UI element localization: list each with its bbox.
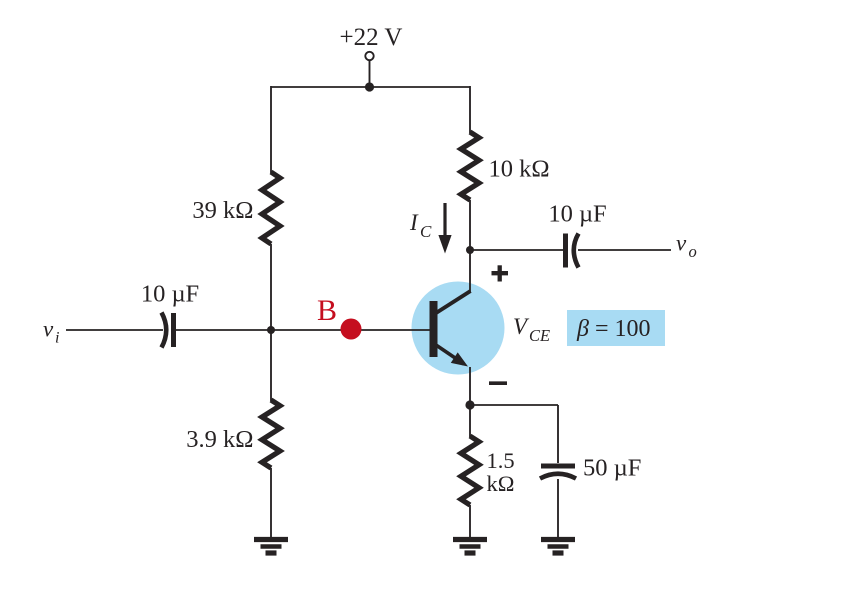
ground GND3 bbox=[541, 540, 575, 554]
label V_CE bbox=[513, 314, 550, 345]
transistor Q1 highlight circle bbox=[412, 282, 505, 375]
wire output right bbox=[578, 249, 671, 251]
supply terminal circle bbox=[365, 52, 373, 60]
svg-text:10 µF: 10 µF bbox=[141, 281, 199, 308]
svg-text:50 µF: 50 µF bbox=[583, 455, 641, 482]
wire emitter node to RE bbox=[469, 405, 471, 437]
svg-text:1.5: 1.5 bbox=[487, 448, 515, 473]
wire R2 to ground bbox=[270, 468, 272, 538]
wire supply stub bbox=[369, 61, 371, 88]
junction collector node bbox=[466, 246, 474, 254]
svg-text:I: I bbox=[409, 210, 419, 235]
wire base node to R2 bbox=[270, 330, 272, 401]
resistor RE 1.5 kΩ bbox=[461, 436, 479, 505]
svg-text:B: B bbox=[317, 294, 337, 327]
capacitor C2 10 µF bbox=[566, 234, 579, 268]
svg-text:V: V bbox=[513, 314, 530, 339]
svg-text:10 kΩ: 10 kΩ bbox=[489, 156, 550, 183]
svg-text:β = 100: β = 100 bbox=[576, 316, 651, 342]
svg-text:v: v bbox=[676, 231, 687, 256]
current arrow I_C bbox=[438, 203, 451, 254]
ground GND1 bbox=[254, 540, 288, 554]
svg-text:10 µF: 10 µF bbox=[548, 201, 606, 228]
svg-text:C: C bbox=[420, 222, 432, 241]
resistor R1 39 kΩ bbox=[262, 172, 280, 244]
wire input bbox=[66, 329, 163, 331]
label v_o bbox=[676, 231, 697, 262]
svg-text:39 kΩ: 39 kΩ bbox=[192, 197, 253, 224]
label + polarity bbox=[492, 265, 509, 281]
label I_C bbox=[409, 210, 432, 241]
svg-text:CE: CE bbox=[529, 326, 550, 345]
node B dot bbox=[341, 319, 362, 340]
svg-text:o: o bbox=[689, 242, 697, 261]
wire top rail bbox=[271, 86, 470, 88]
svg-text:+22 V: +22 V bbox=[340, 24, 403, 51]
svg-text:kΩ: kΩ bbox=[487, 471, 515, 496]
junction emitter node bbox=[465, 400, 474, 409]
wire RC to collector node bbox=[469, 200, 471, 250]
wire collector node to transistor bbox=[469, 250, 471, 292]
capacitor C1 10 µF bbox=[162, 313, 174, 348]
junction divider-base node bbox=[267, 326, 275, 334]
transistor Q1 bbox=[430, 291, 471, 367]
beta box highlight bbox=[567, 310, 665, 346]
ground GND2 bbox=[453, 540, 487, 554]
svg-text:3.9 kΩ: 3.9 kΩ bbox=[186, 426, 253, 453]
resistor R2 3.9 kΩ bbox=[262, 400, 280, 468]
svg-text:i: i bbox=[55, 330, 59, 347]
junction supply node bbox=[365, 82, 374, 91]
label v_i bbox=[43, 317, 59, 347]
label − polarity bbox=[489, 381, 507, 385]
wire emitter to node bbox=[469, 367, 471, 405]
wire output left bbox=[470, 249, 563, 251]
wire left rail upper bbox=[270, 86, 272, 173]
wire emitter node to CE branch bbox=[470, 405, 558, 463]
wire C1 to base bbox=[176, 329, 430, 331]
svg-text:v: v bbox=[43, 317, 54, 342]
wire right rail upper bbox=[469, 86, 471, 133]
capacitor CE 50 µF bbox=[540, 466, 576, 479]
resistor RC 10 kΩ bbox=[461, 132, 479, 200]
wire R1 to base node bbox=[270, 244, 272, 330]
wire CE to ground bbox=[557, 479, 559, 538]
wire RE to ground bbox=[469, 505, 471, 538]
